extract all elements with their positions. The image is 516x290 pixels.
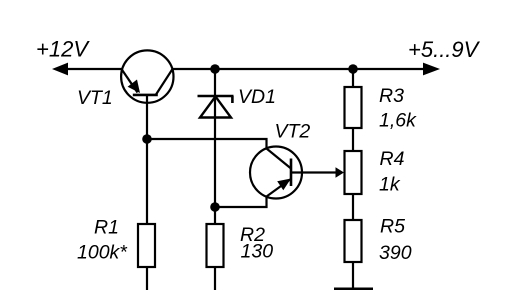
potentiometer R4 — [345, 151, 362, 194]
transistor VT1 — [121, 50, 173, 102]
transistor VT2 — [250, 147, 302, 199]
wire: VD1 vertical (rail to node B) — [214, 69, 216, 207]
junction dot R3 top — [348, 64, 358, 74]
wire: R1 to bottom edge — [146, 267, 148, 290]
resistor R5 — [345, 220, 362, 262]
svg-text:R3: R3 — [379, 85, 404, 107]
wire: node B to R2 — [214, 207, 216, 224]
svg-text:1k: 1k — [379, 174, 401, 196]
svg-text:VT2: VT2 — [275, 121, 311, 143]
wire: VT1 base down to node A — [146, 95, 148, 140]
wire: node B to VT2 emitter — [215, 196, 267, 207]
svg-text:390: 390 — [379, 242, 412, 264]
wire: R4 to R5 — [352, 194, 354, 220]
junction dot VD1 top — [210, 64, 220, 74]
resistor R3 — [345, 87, 362, 128]
wire: rail to R3 — [352, 69, 354, 87]
wire: R5 to ground — [352, 262, 354, 288]
wire: +5...9V rail right segment with arrow — [173, 63, 441, 76]
wire: R3 to R4 — [352, 128, 354, 151]
svg-text:R5: R5 — [380, 216, 405, 238]
svg-text:R1: R1 — [94, 217, 119, 239]
node B junction — [210, 202, 220, 212]
svg-text:100k*: 100k* — [77, 242, 128, 264]
svg-text:+5...9V: +5...9V — [408, 37, 481, 62]
wire: R2 to bottom edge — [214, 267, 216, 290]
svg-text:R4: R4 — [380, 148, 405, 170]
svg-text:VD1: VD1 — [238, 86, 276, 108]
ground — [334, 288, 373, 290]
wire: node A to R1 — [146, 139, 148, 224]
wire: node A to VT2 collector — [147, 139, 267, 150]
svg-text:VT1: VT1 — [77, 87, 113, 109]
zener diode VD1 — [198, 96, 234, 118]
svg-text:1,6k: 1,6k — [379, 110, 417, 132]
svg-text:130: 130 — [241, 241, 274, 263]
wire: +12V rail left segment with arrow — [52, 63, 122, 76]
wire: VT2 base to R4 wiper — [291, 171, 337, 173]
resistor R2 — [207, 224, 224, 267]
resistor R1 — [138, 224, 155, 267]
svg-text:+12V: +12V — [36, 37, 90, 62]
R4 wiper arrowhead — [336, 167, 345, 177]
node A junction — [142, 134, 152, 144]
